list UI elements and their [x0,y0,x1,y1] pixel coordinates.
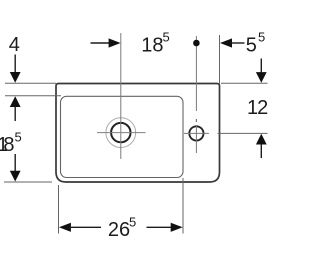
svg-text:12: 12 [247,97,268,119]
dim 4 stem [14,55,16,74]
washbasin outer body [56,84,220,183]
drain centerline horizontal [97,132,146,134]
extension line tap center right [218,132,268,134]
dim 18.5 top line [91,42,111,44]
svg-text:5: 5 [15,130,22,145]
extension line right edge up [219,35,221,84]
dim 4 arrow down [10,72,21,83]
svg-text:5: 5 [246,35,257,57]
dim 26.5 line left [69,226,101,228]
drain centerline vertical [120,33,122,159]
dim 18.5 left arrow down [10,171,21,182]
extension line top edge left [5,82,56,84]
svg-text:18: 18 [141,35,163,57]
extension line top edge right [221,82,268,84]
dim 5.5 line [231,42,245,44]
dim 12 arrow up [256,134,267,145]
dim 12 stem lower [260,144,262,158]
svg-text:4: 4 [9,34,20,56]
drain hole [111,123,130,142]
washbasin inner rim [61,96,184,177]
dim 18.5 left arrow up [10,96,21,107]
dim 12 stem upper [260,59,262,74]
dim 5.5 arrow left [220,38,232,47]
dim 18.5 left stem lower [14,154,16,172]
dim 26.5 arrow right [171,223,183,232]
tap hole centerline vertical [195,36,197,111]
extension line rim top left [5,95,61,97]
extension line bottom edge left [4,181,52,183]
dim chain dot [193,40,200,47]
extension line 26.5 left [58,185,60,234]
extension line 26.5 right [182,178,184,234]
dim 26.5 arrow left [59,223,71,232]
dim 18.5 top arrow right [109,38,121,47]
svg-text:5: 5 [258,30,265,45]
dim 18.5 left stem upper [14,106,16,121]
svg-text:5: 5 [163,30,170,45]
svg-text:5: 5 [129,215,136,230]
drain outer circle [106,118,136,148]
dim 12 arrow down [256,72,267,83]
dim 26.5 line right [147,226,174,228]
tap hole centerline horizontal [184,132,209,134]
svg-text:26: 26 [108,219,130,241]
tap hole [189,126,203,140]
svg-text:8: 8 [3,134,14,156]
